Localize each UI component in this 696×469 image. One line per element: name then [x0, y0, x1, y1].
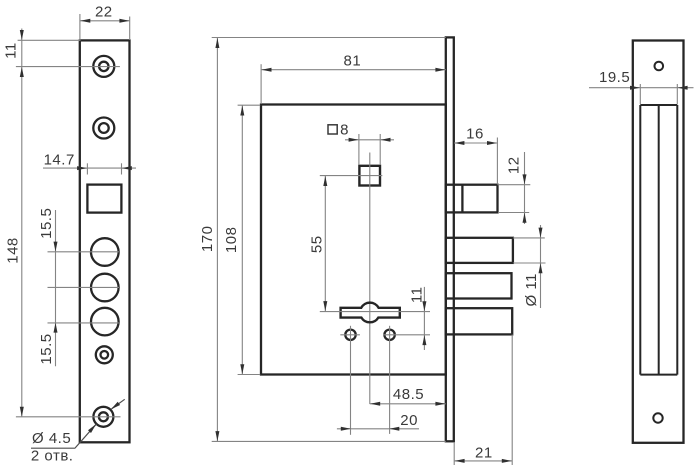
side channel right edge — [676, 105, 678, 375]
dim 48.5 line — [370, 403, 446, 405]
dim 108 line — [241, 105, 243, 374]
dim square-8 line — [345, 139, 394, 141]
dim 22 line — [80, 20, 130, 22]
dim 81 extension — [260, 64, 262, 104]
mount hole B centerlines — [389, 326, 391, 434]
svg-text:11: 11 — [2, 42, 19, 59]
dim 15.5 shared line — [55, 210, 57, 366]
dia 4.5 leader upper segment — [112, 399, 125, 409]
spindle horizontal centerline — [320, 175, 383, 177]
side view bottom hole — [653, 413, 662, 422]
svg-text:20: 20 — [400, 412, 418, 429]
side channel middle line — [658, 106, 660, 375]
latch bolt — [446, 185, 498, 213]
square symbol — [328, 125, 337, 134]
svg-text:11: 11 — [408, 287, 425, 304]
bolt hole 3 — [91, 308, 119, 336]
keyhole — [341, 303, 400, 323]
extension through top hole — [16, 66, 120, 68]
svg-text:Ø 4.5: Ø 4.5 — [32, 430, 71, 447]
svg-text:108: 108 — [223, 227, 240, 254]
dim 14.7 ticks — [86, 163, 88, 174]
svg-text:170: 170 — [199, 226, 216, 253]
svg-text:12: 12 — [505, 156, 522, 174]
dim dia11 line — [540, 225, 542, 308]
dim 21 extensions — [453, 442, 455, 465]
bottom screw hole ring — [93, 407, 113, 427]
spindle vertical centerline — [369, 153, 371, 405]
svg-text:15.5: 15.5 — [38, 333, 55, 364]
small ring hole — [96, 346, 113, 363]
mount hole B — [384, 330, 394, 340]
svg-text:15.5: 15.5 — [38, 208, 55, 239]
side channel top edge — [640, 104, 677, 106]
leader shelf — [31, 447, 75, 449]
side view top hole — [655, 62, 664, 71]
svg-text:81: 81 — [344, 52, 362, 69]
cylinder hole ring 2 — [93, 118, 114, 139]
latch bevel line — [461, 185, 463, 213]
dim 11 keyhole line — [423, 287, 425, 350]
keyhole horizontal centerline — [320, 311, 430, 313]
dia 4.5 leader lower segment — [75, 424, 96, 448]
dim 12 line — [524, 152, 526, 224]
mount hole A centerlines — [350, 326, 352, 435]
svg-text:21: 21 — [475, 445, 493, 462]
hole center extensions — [48, 251, 120, 253]
side channel bottom edge — [640, 374, 677, 376]
dim 22 extension lines — [79, 14, 81, 40]
dim 11 top extension — [18, 39, 81, 41]
side channel left edge — [639, 105, 641, 375]
dim 170 extensions — [212, 37, 446, 39]
svg-text:8: 8 — [340, 121, 349, 138]
screw hole top ring — [93, 56, 114, 77]
svg-text:2 отв.: 2 отв. — [31, 447, 74, 464]
svg-text:48.5: 48.5 — [393, 386, 424, 403]
dim 108 extensions — [238, 104, 261, 106]
dim 16 extension — [496, 138, 498, 185]
svg-text:16: 16 — [466, 125, 484, 142]
dim dia11 extensions — [513, 237, 545, 239]
dim 81 line — [261, 69, 446, 71]
dim 19.5 line — [589, 87, 694, 89]
dim 55 line — [324, 176, 326, 312]
dim 16 line — [454, 142, 497, 144]
square cutout 14.7 — [87, 185, 121, 213]
dim 21 line — [454, 460, 512, 462]
svg-text:22: 22 — [95, 3, 113, 20]
svg-text:Ø 11: Ø 11 — [523, 273, 540, 306]
bolt hole 1 — [91, 238, 119, 266]
dim 170 line — [216, 38, 218, 442]
faceplate front view plate — [80, 40, 130, 442]
spindle square hole — [359, 166, 380, 186]
faceplate edge strip — [446, 37, 454, 441]
dim 11/148 shared dimension line — [21, 29, 23, 418]
dim 12 extensions — [498, 184, 531, 186]
dim 19.5 extensions — [639, 84, 641, 104]
dim 20 line — [337, 428, 419, 430]
bolt hole 2 — [91, 274, 119, 302]
extension through bottom hole — [16, 416, 121, 418]
svg-text:148: 148 — [5, 237, 22, 264]
mount hole A — [345, 330, 355, 340]
side view plate — [633, 41, 684, 443]
svg-text:19.5: 19.5 — [599, 69, 630, 86]
svg-text:14.7: 14.7 — [44, 151, 75, 168]
svg-text:55: 55 — [308, 235, 325, 253]
deadbolt 2 — [446, 273, 512, 298]
deadbolt 3 — [446, 308, 512, 334]
lock body rectangle — [261, 105, 446, 375]
dim 14.7 line — [43, 167, 136, 169]
deadbolt 1 — [446, 238, 513, 263]
dim square-8 ticks — [358, 134, 360, 165]
